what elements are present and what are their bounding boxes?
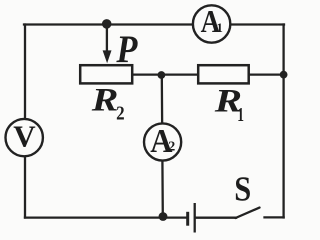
node: A2/bottom-wire junction: [159, 212, 168, 221]
resistor R1: [198, 65, 249, 83]
svg-text:S: S: [234, 171, 251, 209]
resistor R2 (rheostat body): [80, 65, 132, 83]
ammeter A1: [193, 5, 230, 43]
battery: long positive plate: [194, 203, 196, 233]
potentiometer wiper arrow P: [103, 24, 112, 63]
wire battery-to-switch: [196, 217, 237, 219]
svg-text:R: R: [91, 81, 119, 118]
voltmeter V: [6, 118, 43, 156]
svg-text:1: 1: [237, 104, 244, 126]
wire right: [282, 25, 284, 218]
svg-text:P: P: [115, 27, 138, 70]
node: R2/R1/A2 junction: [158, 71, 166, 79]
wire switch-to-right: [265, 216, 284, 218]
svg-text:2: 2: [168, 139, 175, 154]
battery: short negative plate: [186, 212, 189, 226]
wire A2 branch: [162, 75, 163, 216]
ammeter A2: [144, 123, 181, 161]
wire left: [24, 25, 26, 218]
svg-text:V: V: [13, 118, 36, 153]
node: wiper tap junction: [102, 19, 112, 29]
switch S blade: [236, 208, 260, 218]
svg-text:1: 1: [216, 20, 223, 35]
node: R1/right-rail junction: [280, 71, 288, 79]
wire top: [24, 23, 284, 25]
wire bottom-left: [25, 216, 187, 218]
svg-text:2: 2: [116, 102, 125, 125]
wire middle (R2 to R1 to right rail): [133, 73, 284, 75]
